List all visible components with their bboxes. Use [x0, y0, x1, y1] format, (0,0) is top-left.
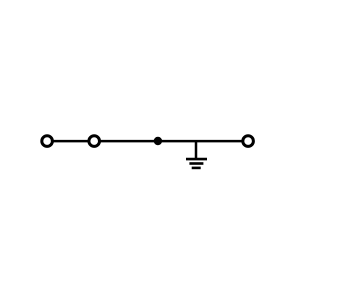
wire (T2 to T3 across junction and ground tap): [100, 140, 241, 143]
ground GND: [186, 159, 207, 168]
junction node (solder dot): [154, 137, 162, 145]
terminal T2 (second open circle): [89, 136, 100, 147]
terminal T1 (left open circle): [42, 136, 53, 147]
wire (T1 to T2): [54, 140, 89, 143]
terminal T3 (right open circle): [243, 136, 254, 147]
wire (ground stem): [195, 141, 198, 159]
